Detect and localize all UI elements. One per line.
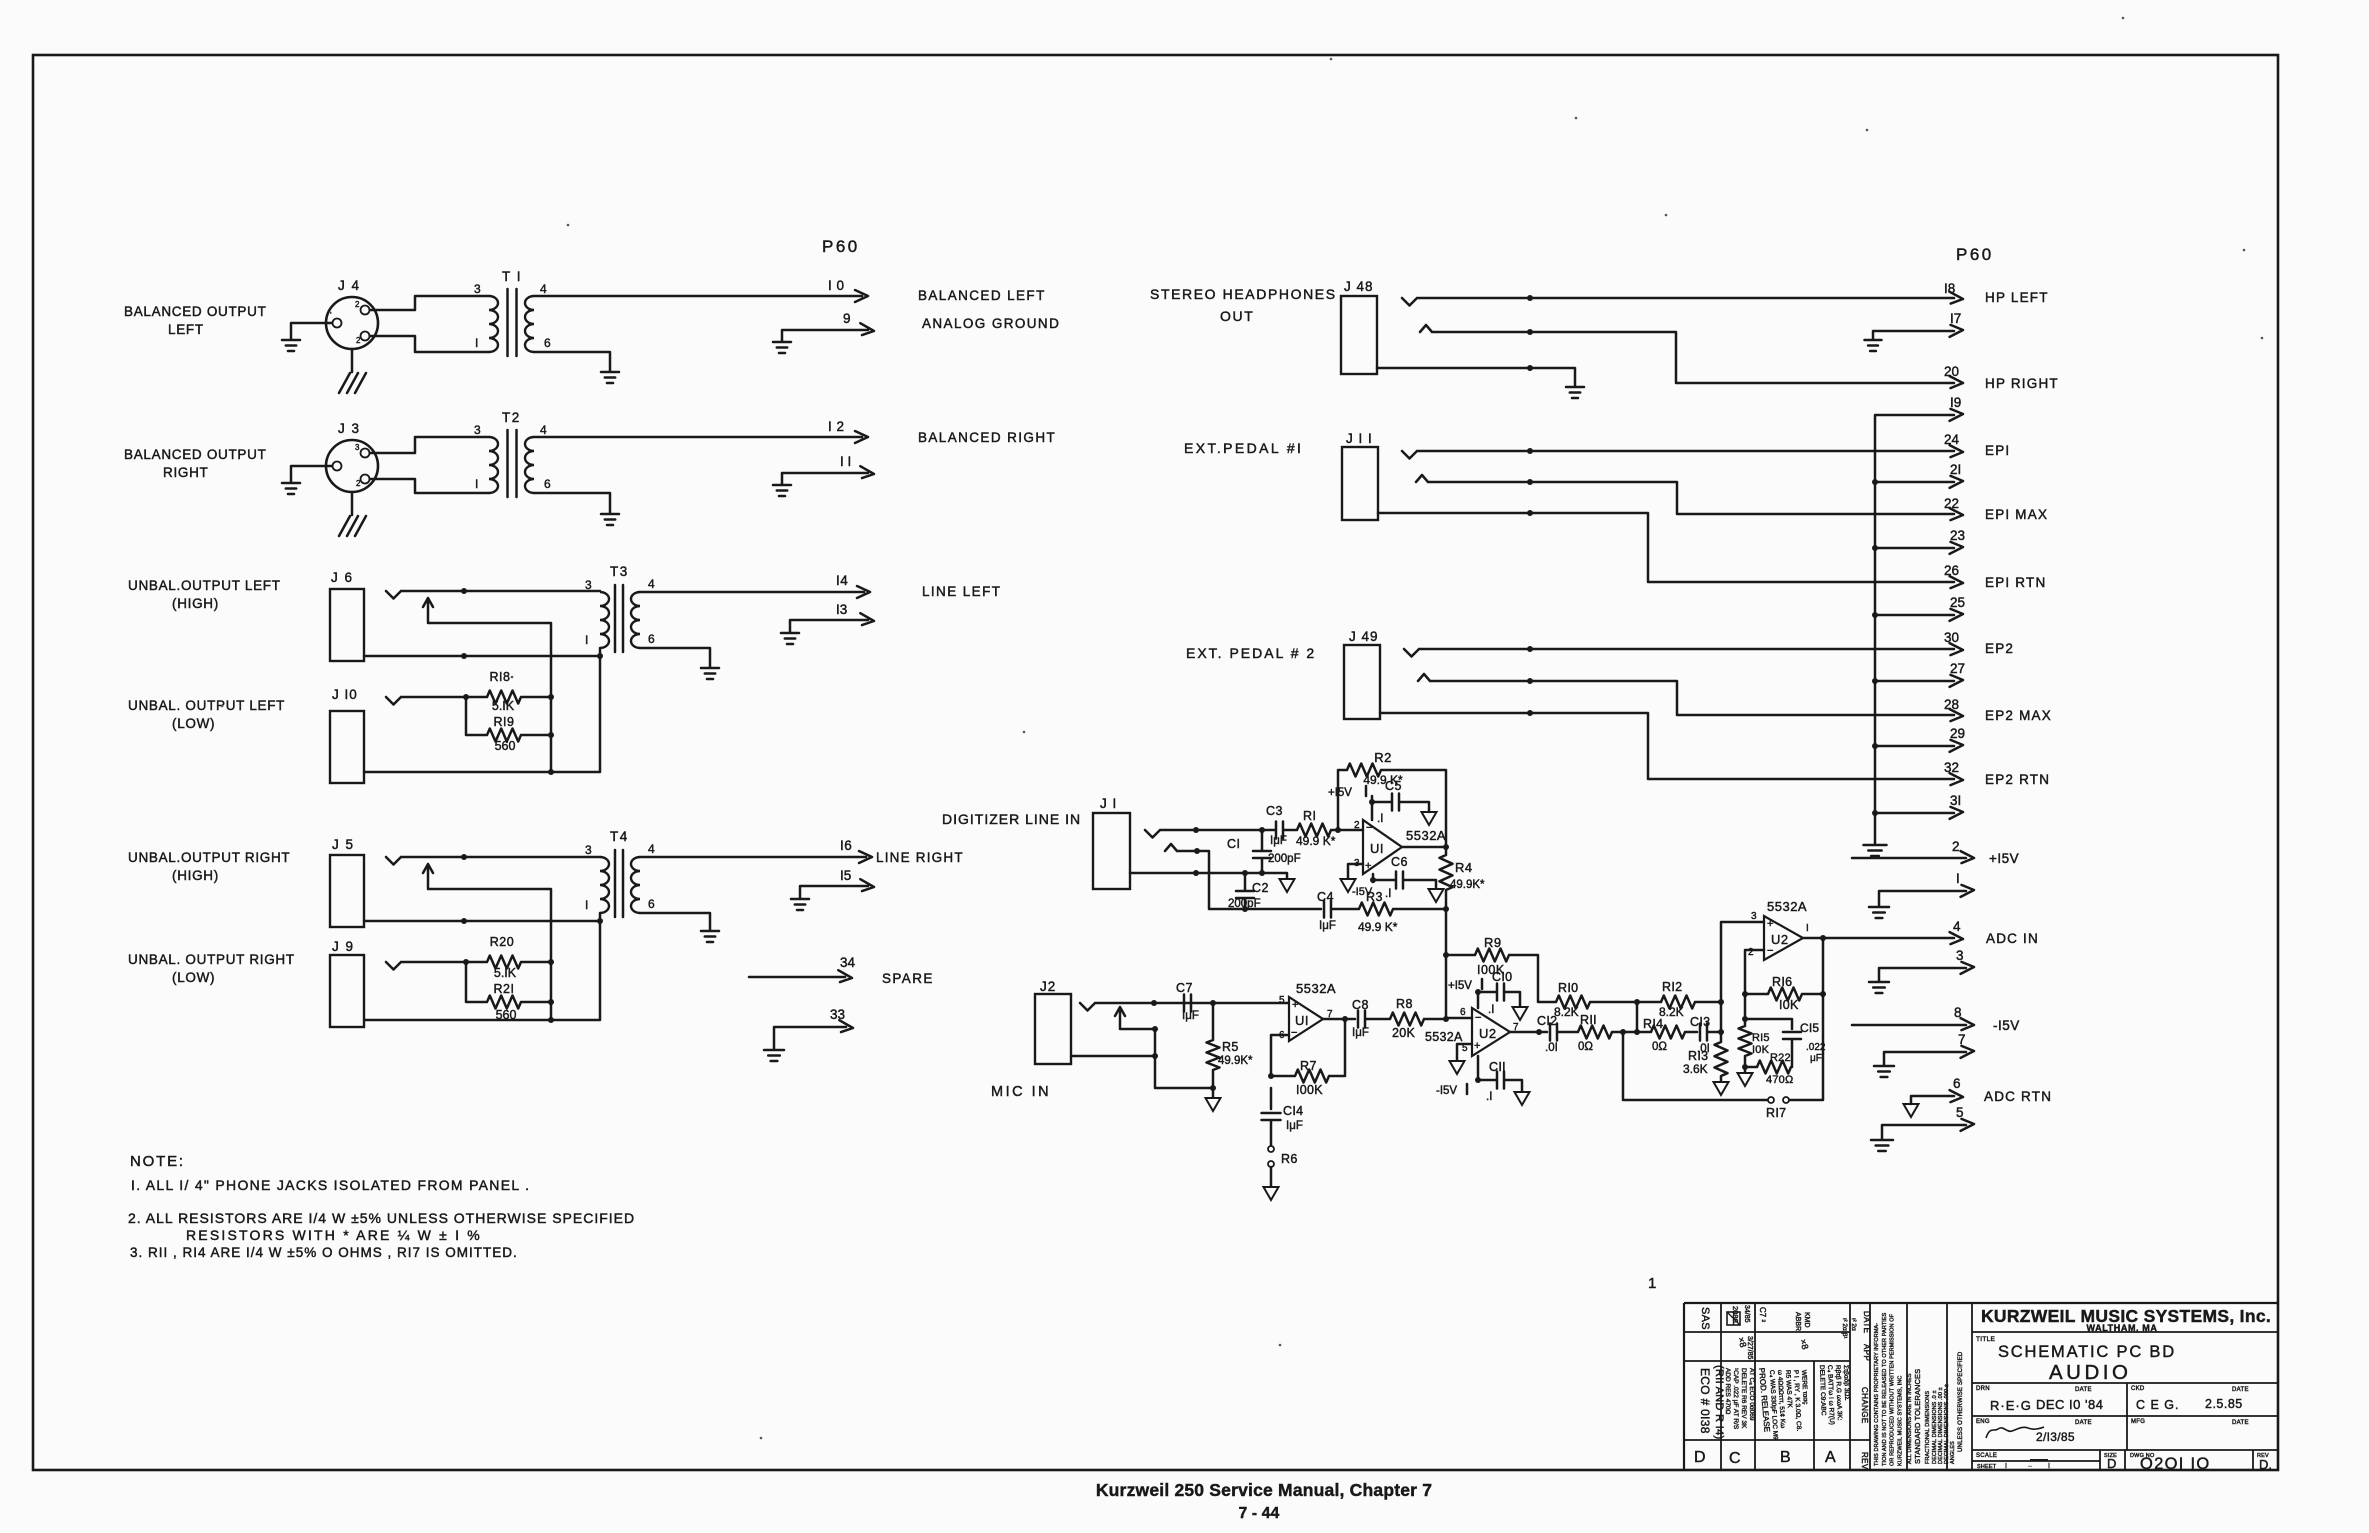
svg-text:RI6: RI6 [1772, 975, 1792, 989]
svg-text:ECO # 0I38: ECO # 0I38 [1698, 1368, 1712, 1434]
svg-text:I7: I7 [1950, 311, 1961, 326]
svg-text:5: 5 [1279, 995, 1285, 1006]
svg-text:DELETE R6 REV 3K: DELETE R6 REV 3K [1740, 1368, 1747, 1429]
svg-text:J I: J I [1100, 796, 1117, 811]
svg-text:J I I: J I I [1346, 431, 1373, 446]
svg-text:AUDIO: AUDIO [2049, 1361, 2131, 1384]
svg-text:C4: C4 [1317, 890, 1334, 904]
svg-text:SHEET: SHEET [1977, 1464, 1997, 1470]
svg-text:×8: ×8 [1798, 1338, 1810, 1351]
svg-text:R20: R20 [490, 935, 514, 949]
svg-text:CHANGE: CHANGE [1860, 1387, 1869, 1424]
svg-text:BALANCED RIGHT: BALANCED RIGHT [918, 430, 1056, 445]
svg-text:24: 24 [1944, 432, 1960, 447]
svg-text:6: 6 [1460, 1007, 1466, 1018]
svg-text:EXT.PEDAL #I: EXT.PEDAL #I [1184, 440, 1303, 456]
svg-text:LINE LEFT: LINE LEFT [922, 584, 1001, 599]
svg-text:.I: .I [1385, 888, 1391, 900]
svg-text:DIGITIZER LINE IN: DIGITIZER LINE IN [942, 811, 1081, 827]
svg-text:MIC IN: MIC IN [991, 1084, 1051, 1100]
svg-text:KURZWEIL MUSIC SYSTEMS, INC: KURZWEIL MUSIC SYSTEMS, INC [1897, 1375, 1903, 1466]
svg-text:ι² 2α: ι² 2α [1850, 1318, 1857, 1331]
svg-text:HP LEFT: HP LEFT [1985, 290, 2049, 305]
svg-text:.I: .I [1488, 1004, 1494, 1016]
svg-text:32: 32 [1944, 760, 1959, 775]
svg-text:49.9K*: 49.9K* [1450, 879, 1485, 891]
svg-text:7: 7 [1513, 1022, 1519, 1033]
svg-text:I3: I3 [836, 602, 847, 617]
svg-text:SPARE: SPARE [882, 971, 934, 986]
svg-text:IμF: IμF [1319, 920, 1336, 932]
svg-text:25: 25 [1950, 595, 1965, 610]
svg-text:3. RII , RI4 ARE I/4 W ±5%: 3. RII , RI4 ARE I/4 W ±5% O OHMS , RI7 … [130, 1245, 518, 1260]
svg-text:UNBAL.OUTPUT RIGHT: UNBAL.OUTPUT RIGHT [128, 850, 290, 865]
svg-text:3/27/85: 3/27/85 [1746, 1336, 1753, 1359]
svg-text:0Ω: 0Ω [1578, 1041, 1593, 1053]
svg-text:RI7: RI7 [1766, 1106, 1786, 1120]
svg-text:I00K: I00K [1296, 1083, 1323, 1097]
svg-text:−: − [1366, 822, 1372, 834]
svg-text:EPI MAX: EPI MAX [1985, 507, 2048, 522]
svg-text:R22: R22 [1770, 1052, 1791, 1064]
svg-text:UI: UI [1370, 841, 1384, 856]
svg-text:AT Cₐ ECO 0α069: AT Cₐ ECO 0α069 [1748, 1368, 1755, 1421]
svg-text:3: 3 [1751, 911, 1757, 922]
svg-text:27: 27 [1950, 661, 1965, 676]
svg-text:BALANCED OUTPUT: BALANCED OUTPUT [124, 304, 267, 319]
svg-text:+: + [1474, 1040, 1480, 1052]
svg-text:6: 6 [1953, 1076, 1961, 1091]
svg-text:Στβαδβ 3ΩΣ: Στβαδβ 3ΩΣ [1842, 1365, 1850, 1401]
svg-text:ADD RES 470Ω: ADD RES 470Ω [1724, 1368, 1731, 1415]
svg-text:C5: C5 [1385, 779, 1402, 793]
svg-text:UNBAL. OUTPUT LEFT: UNBAL. OUTPUT LEFT [128, 698, 285, 713]
svg-text:8: 8 [1954, 1005, 1962, 1020]
svg-text:C7: C7 [1176, 981, 1193, 995]
svg-text:HP RIGHT: HP RIGHT [1985, 376, 2059, 391]
svg-text:··: ·· [2028, 1464, 2032, 1470]
svg-text:UNBAL. OUTPUT RIGHT: UNBAL. OUTPUT RIGHT [128, 952, 295, 967]
svg-text:I: I [2048, 1463, 2050, 1470]
svg-text:I: I [2005, 1463, 2007, 1470]
svg-text:.022: .022 [1806, 1042, 1826, 1053]
svg-text:O2OI IO: O2OI IO [2140, 1455, 2211, 1473]
svg-text:ABBR: ABBR [1794, 1312, 1801, 1331]
svg-text:34/85: 34/85 [1743, 1305, 1750, 1323]
svg-text:DEC I0 '84: DEC I0 '84 [2036, 1397, 2103, 1412]
svg-text:5.IK: 5.IK [492, 699, 515, 713]
svg-text:28: 28 [1944, 697, 1959, 712]
svg-text:R7: R7 [1300, 1059, 1317, 1073]
svg-text:29: 29 [1950, 726, 1965, 741]
svg-text:I6: I6 [840, 838, 852, 853]
svg-text:RI4: RI4 [1643, 1017, 1663, 1031]
svg-text:.I: .I [1486, 1091, 1492, 1103]
svg-text:R2: R2 [1374, 750, 1392, 765]
svg-text:OR REPRODUCED WITHOUT WRITTE: OR REPRODUCED WITHOUT WRITTEN PERMISSION… [1890, 1313, 1896, 1466]
svg-text:8.2K: 8.2K [1554, 1005, 1579, 1019]
svg-text:34: 34 [840, 955, 856, 970]
svg-text:5532A: 5532A [1296, 981, 1336, 996]
svg-text:I4: I4 [836, 573, 848, 588]
svg-text:2: 2 [356, 479, 361, 488]
svg-text:EXT. PEDAL # 2: EXT. PEDAL # 2 [1186, 645, 1316, 661]
svg-text:Kurzweil 250 Service Manual, C: Kurzweil 250 Service Manual, Chapter 7 [1096, 1480, 1432, 1500]
svg-text:NOTE:: NOTE: [130, 1153, 185, 1170]
svg-text:A: A [1825, 1449, 1836, 1466]
svg-text:6: 6 [544, 477, 551, 491]
svg-text:D.: D. [2259, 1457, 2272, 1472]
svg-text:9: 9 [843, 311, 851, 326]
svg-text:3: 3 [474, 282, 481, 296]
svg-text:DATE: DATE [2075, 1387, 2092, 1393]
svg-text:T I: T I [502, 269, 522, 284]
svg-text:7 - 44: 7 - 44 [1239, 1505, 1280, 1522]
svg-text:2: 2 [1748, 947, 1754, 958]
svg-text:RI8: RI8 [490, 670, 511, 684]
svg-text:KMD: KMD [1803, 1312, 1810, 1328]
svg-text:C8: C8 [1352, 998, 1369, 1012]
svg-text:EP2 RTN: EP2 RTN [1985, 772, 2050, 787]
svg-text:2I: 2I [1950, 462, 1961, 477]
svg-text:TITLE: TITLE [1976, 1336, 1996, 1343]
svg-text:(RII AND R I4): (RII AND R I4) [1713, 1365, 1725, 1440]
svg-text:.I: .I [1377, 813, 1383, 825]
svg-text:UNBAL.OUTPUT LEFT: UNBAL.OUTPUT LEFT [128, 578, 281, 593]
svg-text:UNLESS OTHERWISE SPECIFIED: UNLESS OTHERWISE SPECIFIED [1958, 1351, 1964, 1452]
svg-text:CI3: CI3 [1690, 1015, 1710, 1029]
svg-text:49.9K*: 49.9K* [1218, 1055, 1253, 1067]
svg-text:P60: P60 [822, 237, 860, 256]
svg-text:SCALE: SCALE [1976, 1453, 1997, 1459]
svg-text:+: + [1767, 918, 1773, 930]
svg-text:1: 1 [1648, 1275, 1656, 1292]
svg-text:I0K: I0K [1779, 998, 1799, 1012]
svg-text:P60: P60 [1956, 245, 1994, 264]
svg-text:RII: RII [1580, 1013, 1597, 1027]
svg-text:C2: C2 [1252, 881, 1269, 895]
svg-text:I: I [585, 898, 588, 912]
svg-text:26: 26 [1944, 563, 1959, 578]
svg-text:2: 2 [355, 300, 360, 309]
svg-text:RI9: RI9 [494, 715, 515, 729]
svg-text:RIGHT: RIGHT [163, 465, 209, 480]
svg-text:33: 33 [830, 1007, 845, 1022]
svg-text:FRACTIONAL DIMENSIONS: FRACTIONAL DIMENSIONS [1925, 1391, 1931, 1464]
svg-text:3.6K: 3.6K [1683, 1062, 1708, 1076]
svg-text:470Ω: 470Ω [1766, 1074, 1793, 1086]
svg-text:I0K: I0K [1752, 1044, 1770, 1056]
svg-text:I: I [1956, 871, 1960, 886]
svg-text:RI2: RI2 [1662, 980, 1682, 994]
svg-text:22: 22 [1944, 496, 1959, 511]
svg-text:DATE: DATE [2232, 1420, 2249, 1426]
svg-text:49.9 K*: 49.9 K* [1296, 834, 1336, 848]
svg-text:DATE: DATE [2075, 1420, 2092, 1426]
svg-text:C₄ BATTω I ω R7(U): C₄ BATTω I ω R7(U) [1826, 1365, 1835, 1425]
svg-text:EP2: EP2 [1985, 641, 2014, 656]
svg-text:3: 3 [1354, 858, 1360, 869]
svg-text:I: I [475, 336, 478, 350]
svg-text:560: 560 [495, 739, 516, 753]
svg-text:3: 3 [585, 578, 592, 592]
svg-text:200pF: 200pF [1268, 853, 1301, 865]
svg-text:OUT: OUT [1220, 308, 1254, 324]
svg-text:+I5V: +I5V [1328, 787, 1352, 799]
svg-text:BALANCED LEFT: BALANCED LEFT [918, 288, 1046, 303]
svg-text:C: C [1729, 1450, 1741, 1467]
svg-text:6: 6 [648, 897, 655, 911]
svg-text:IμF: IμF [1182, 1010, 1199, 1022]
svg-text:6: 6 [1279, 1030, 1285, 1041]
svg-text:EPI RTN: EPI RTN [1985, 575, 2046, 590]
svg-text:560: 560 [496, 1008, 517, 1022]
svg-text:RI3: RI3 [1688, 1049, 1708, 1063]
svg-text:0Ω: 0Ω [1652, 1041, 1667, 1053]
svg-text:I: I [475, 477, 478, 491]
svg-text:4: 4 [540, 423, 547, 437]
svg-text:': ' [330, 311, 332, 320]
svg-text:R9: R9 [1484, 935, 1502, 950]
svg-text:5: 5 [1462, 1043, 1468, 1054]
svg-text:μF: μF [1810, 1053, 1822, 1064]
svg-text:D: D [1694, 1449, 1706, 1466]
svg-text:5532A: 5532A [1425, 1030, 1463, 1044]
svg-text:C3: C3 [1266, 804, 1283, 818]
svg-text:T2: T2 [502, 410, 521, 425]
svg-text:D: D [2107, 1456, 2116, 1471]
svg-text:ANALOG GROUND: ANALOG GROUND [922, 316, 1060, 331]
svg-text:3: 3 [474, 423, 481, 437]
svg-text:6: 6 [648, 632, 655, 646]
svg-text:7: 7 [1958, 1032, 1966, 1047]
svg-text:-I5V: -I5V [1436, 1085, 1457, 1097]
svg-text:3: 3 [1956, 948, 1964, 963]
svg-text:RESISTORS WITH * ARE ¼ W: RESISTORS WITH * ARE ¼ W ± I % [186, 1227, 482, 1243]
svg-text:BALANCED OUTPUT: BALANCED OUTPUT [124, 447, 267, 462]
svg-text:R2I: R2I [494, 982, 515, 996]
svg-text:30: 30 [1944, 630, 1959, 645]
svg-text:IμF: IμF [1352, 1027, 1369, 1039]
svg-text:(HIGH): (HIGH) [172, 868, 219, 883]
svg-text:2. ALL RESISTORS ARE I/4 W: 2. ALL RESISTORS ARE I/4 W ±5% UNLESS OT… [128, 1210, 635, 1226]
svg-text:ENG: ENG [1976, 1419, 1990, 1425]
svg-text:DATE: DATE [2232, 1387, 2249, 1393]
svg-text:DELETE C9:ABC: DELETE C9:ABC [1818, 1365, 1827, 1416]
svg-text:SAS: SAS [1699, 1307, 1711, 1330]
svg-text:C E G.: C E G. [2136, 1398, 2180, 1412]
svg-text:B: B [1780, 1449, 1791, 1466]
svg-text:−: − [1767, 945, 1773, 957]
svg-text:J 49: J 49 [1349, 629, 1379, 644]
svg-text:7: 7 [1327, 1009, 1333, 1020]
svg-text:THIS DRAWING CONTAINS PROPR: THIS DRAWING CONTAINS PROPRIETARY INFORM… [1874, 1323, 1880, 1466]
svg-text:23: 23 [1950, 528, 1965, 543]
svg-text:T4: T4 [610, 829, 629, 844]
svg-text:(HIGH): (HIGH) [172, 596, 219, 611]
svg-text:J 4: J 4 [338, 278, 361, 293]
svg-text:EPI: EPI [1985, 443, 2010, 458]
svg-text:2.5.85: 2.5.85 [2205, 1397, 2243, 1411]
svg-text:RI5: RI5 [1752, 1032, 1770, 1044]
svg-text:T3: T3 [610, 564, 629, 579]
svg-text:4: 4 [648, 842, 655, 856]
svg-text:ι² 2α β¹: ι² 2α β¹ [1841, 1318, 1848, 1339]
svg-text:STANDARD TOLERANCES: STANDARD TOLERANCES [1913, 1369, 1922, 1464]
svg-text:3: 3 [355, 443, 360, 452]
svg-text:I9: I9 [1950, 395, 1961, 410]
svg-text:+I5V: +I5V [1989, 851, 2019, 866]
svg-text:CI0: CI0 [1492, 970, 1512, 984]
svg-text:ADC RTN: ADC RTN [1984, 1089, 2052, 1104]
svg-text:J 5: J 5 [332, 837, 355, 852]
svg-text:¹CAP .022 μF AT R/S: ¹CAP .022 μF AT R/S [1732, 1368, 1739, 1430]
svg-text:(LOW): (LOW) [172, 970, 215, 985]
svg-text:IμF: IμF [1286, 1120, 1303, 1132]
svg-text:CI5: CI5 [1800, 1021, 1819, 1035]
svg-text:R3: R3 [1366, 890, 1383, 904]
svg-text:DRN: DRN [1976, 1386, 1990, 1392]
svg-text:5532A: 5532A [1767, 899, 1807, 914]
svg-text:ANGLES: ANGLES [1950, 1441, 1956, 1464]
svg-text:J 9: J 9 [332, 939, 355, 954]
svg-text:I8: I8 [1944, 281, 1955, 296]
svg-text:RI0: RI0 [1558, 981, 1578, 995]
svg-text:−: − [1291, 1027, 1297, 1039]
svg-text:R4: R4 [1455, 860, 1473, 875]
svg-text:I5: I5 [840, 868, 851, 883]
svg-text:R5: R5 [1222, 1040, 1239, 1054]
svg-text:+: + [1292, 999, 1298, 1011]
svg-text:2/I3/85: 2/I3/85 [2036, 1430, 2075, 1444]
svg-text:I 2: I 2 [828, 419, 845, 434]
svg-text:J I0: J I0 [332, 687, 358, 702]
svg-text:J2: J2 [1040, 979, 1056, 994]
svg-text:I 0: I 0 [828, 278, 845, 293]
svg-text:EP2 MAX: EP2 MAX [1985, 708, 2052, 723]
svg-text:3I: 3I [1950, 793, 1961, 808]
svg-text:2: 2 [1354, 820, 1360, 831]
svg-text:J 6: J 6 [331, 570, 354, 585]
svg-text:4: 4 [1953, 919, 1961, 934]
svg-text:5532A: 5532A [1406, 828, 1446, 843]
svg-text:-I5V: -I5V [1993, 1018, 2020, 1033]
svg-text:−: − [1475, 1012, 1481, 1024]
svg-text:R8: R8 [1396, 997, 1413, 1011]
svg-text:REV: REV [1860, 1452, 1869, 1470]
svg-text:(LOW): (LOW) [172, 716, 215, 731]
svg-text:LINE RIGHT: LINE RIGHT [876, 850, 964, 865]
svg-text:TION AND IS NOT TO BE RELEASE: TION AND IS NOT TO BE RELEASED TO OTHER … [1882, 1312, 1888, 1466]
svg-text:3: 3 [585, 843, 592, 857]
svg-text:CKD: CKD [2131, 1386, 2145, 1392]
svg-text:5: 5 [1956, 1105, 1964, 1120]
svg-text:UI: UI [1295, 1013, 1309, 1028]
svg-text:I: I [1806, 923, 1809, 934]
svg-text:R·E·G: R·E·G [1990, 1398, 2032, 1413]
svg-text:U2: U2 [1479, 1026, 1497, 1041]
svg-text:4: 4 [648, 577, 655, 591]
svg-text:C7 ²: C7 ² [1758, 1307, 1767, 1322]
svg-text:LEFT: LEFT [168, 322, 204, 337]
svg-text:RI: RI [1303, 809, 1317, 823]
svg-text:CI: CI [1227, 837, 1241, 851]
svg-text:2: 2 [356, 336, 361, 345]
svg-text:ADC IN: ADC IN [1986, 931, 2039, 946]
svg-text:5.IK: 5.IK [494, 966, 517, 980]
svg-text:J 48: J 48 [1344, 279, 1374, 294]
svg-text:CI4: CI4 [1283, 1104, 1303, 1118]
svg-text:20: 20 [1944, 364, 1959, 379]
svg-text:R6: R6 [1281, 1152, 1298, 1166]
svg-text:IμF: IμF [1270, 835, 1287, 847]
svg-text:.0I: .0I [1545, 1042, 1558, 1054]
svg-text:6: 6 [544, 336, 551, 350]
svg-text:I I: I I [840, 454, 851, 469]
svg-text:20K: 20K [1392, 1026, 1416, 1040]
svg-text:2: 2 [1952, 839, 1960, 854]
svg-text:4: 4 [540, 282, 547, 296]
svg-text:CII: CII [1489, 1060, 1506, 1074]
svg-text:I: I [585, 633, 588, 647]
svg-text:I. ALL I/ 4" PHONE JACKS IS: I. ALL I/ 4" PHONE JACKS ISOLATED FROM P… [131, 1177, 530, 1193]
svg-text:J 3: J 3 [338, 421, 361, 436]
svg-text:+: + [1365, 860, 1371, 872]
svg-text:C6: C6 [1391, 855, 1408, 869]
svg-text:MFG: MFG [2131, 1419, 2145, 1425]
svg-text:+I5V: +I5V [1448, 980, 1472, 992]
svg-text:SCHEMATIC PC BD: SCHEMATIC PC BD [1998, 1343, 2176, 1361]
svg-text:U2: U2 [1771, 932, 1789, 947]
svg-text:STEREO HEADPHONES: STEREO HEADPHONES [1150, 286, 1337, 302]
svg-text:49.9 K*: 49.9 K* [1358, 920, 1398, 934]
